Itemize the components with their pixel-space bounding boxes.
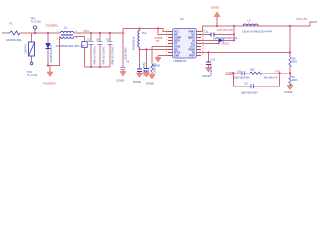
diode D4 bbox=[201, 37, 238, 43]
junction C17 left bbox=[232, 72, 234, 74]
svg-text:VREF: VREF bbox=[189, 55, 196, 57]
junction COMP node bbox=[289, 72, 291, 74]
junction TP1 bbox=[34, 32, 36, 34]
U2 left pin numbers bbox=[166, 30, 168, 56]
svg-text:L3: L3 bbox=[248, 19, 251, 23]
op-amp U2 bbox=[173, 17, 197, 63]
svg-text:1N4007W-R3-TP: 1N4007W-R3-TP bbox=[50, 44, 53, 63]
svg-text:DGND: DGND bbox=[285, 90, 293, 94]
svg-text:SYNC: SYNC bbox=[174, 46, 181, 48]
U2 right pin numbers bbox=[202, 30, 205, 56]
svg-text:DGND: DGND bbox=[146, 82, 154, 86]
svg-text:MOV: MOV bbox=[84, 29, 90, 33]
svg-text:100nF-450V: 100nF-450V bbox=[126, 47, 128, 60]
wire AC line input bbox=[2, 32, 57, 34]
svg-text:0603: 0603 bbox=[292, 61, 298, 64]
capacitor C5 bbox=[106, 32, 115, 67]
svg-text:RT: RT bbox=[156, 39, 160, 43]
svg-text:4: 4 bbox=[166, 39, 168, 41]
svg-text:75K-0603-7%: 75K-0603-7% bbox=[264, 78, 278, 80]
svg-text:L2: L2 bbox=[64, 26, 68, 30]
node RT label bbox=[156, 39, 160, 43]
wire T1A to IC pin bbox=[140, 48, 173, 50]
wire cap bank rail bbox=[85, 66, 111, 68]
svg-text:C13: C13 bbox=[211, 59, 216, 62]
svg-text:DGND: DGND bbox=[203, 74, 211, 78]
svg-text:5: 5 bbox=[166, 42, 168, 44]
capacitor C4 bbox=[96, 32, 106, 68]
resistor R16 bbox=[250, 69, 290, 75]
svg-text:13: 13 bbox=[202, 45, 205, 47]
junction T1A top bbox=[138, 27, 140, 29]
wire choke to bus bbox=[75, 32, 125, 34]
capacitor C9 bbox=[144, 48, 150, 77]
svg-text:DIS: DIS bbox=[174, 49, 178, 51]
svg-text:8: 8 bbox=[166, 51, 168, 53]
svg-text:220pF-0603-50V: 220pF-0603-50V bbox=[233, 78, 251, 80]
wire choke pin4 bbox=[75, 37, 85, 42]
wire neutral rail bbox=[48, 37, 60, 66]
capacitor C6 bbox=[121, 33, 130, 72]
junction T1A bottom bbox=[138, 48, 140, 50]
svg-text:C16: C16 bbox=[237, 71, 242, 74]
svg-text:FB: FB bbox=[192, 52, 195, 54]
svg-text:DGND: DGND bbox=[117, 79, 125, 83]
svg-text:12: 12 bbox=[202, 48, 205, 50]
node MOV label bbox=[84, 29, 90, 33]
svg-text:BO: BO bbox=[192, 34, 196, 36]
svg-text:PFCS: PFCS bbox=[174, 52, 181, 54]
wire FB line bbox=[201, 51, 290, 53]
node COMP label bbox=[155, 36, 163, 40]
svg-text:2: 2 bbox=[76, 31, 78, 33]
svg-text:OUT: OUT bbox=[190, 46, 195, 48]
svg-text:DGND: DGND bbox=[211, 6, 219, 10]
svg-text:1: 1 bbox=[57, 31, 59, 33]
wire bus to VCC pin bbox=[158, 29, 173, 35]
svg-text:DGND: DGND bbox=[222, 42, 230, 46]
capacitor C8 bbox=[133, 49, 146, 84]
diode D1 bbox=[46, 33, 53, 66]
inductor L3 bbox=[242, 19, 273, 34]
wire output bus bbox=[201, 22, 317, 31]
svg-text:VO2_8V: VO2_8V bbox=[296, 17, 307, 21]
wire divider vertical bbox=[289, 26, 291, 57]
svg-text:10: 10 bbox=[202, 54, 205, 56]
svg-text:U2: U2 bbox=[180, 17, 184, 21]
resistor R17 bbox=[289, 76, 298, 86]
svg-text:TL-Cx10: TL-Cx10 bbox=[31, 20, 42, 24]
ground DGND up flag bbox=[211, 6, 220, 28]
svg-text:ISEN: ISEN bbox=[174, 40, 180, 42]
wire HV bus riser bbox=[122, 29, 124, 34]
svg-text:INV: INV bbox=[174, 34, 178, 36]
resistor R15 bbox=[289, 57, 298, 76]
common mode choke L2 bbox=[56, 26, 88, 49]
capacitor C13 bbox=[203, 51, 216, 78]
ground DGND divider bbox=[285, 86, 294, 94]
svg-text:100nF-0603: 100nF-0603 bbox=[211, 63, 213, 76]
svg-text:800uH-EE16: 800uH-EE16 bbox=[134, 36, 136, 50]
IC right pin stubs bbox=[197, 31, 202, 55]
svg-text:N.C: N.C bbox=[191, 43, 195, 45]
svg-text:SS: SS bbox=[192, 40, 196, 42]
svg-text:DGND: DGND bbox=[152, 64, 160, 68]
svg-text:POWERN: POWERN bbox=[43, 82, 56, 86]
svg-text:10D471K: 10D471K bbox=[25, 44, 28, 54]
svg-text:22uF-50V-10V: 22uF-50V-10V bbox=[217, 29, 233, 32]
svg-text:TL-Cx10: TL-Cx10 bbox=[27, 73, 38, 77]
capacitor C3 bbox=[87, 32, 97, 68]
svg-text:26pF-0603-50V: 26pF-0603-50V bbox=[241, 91, 258, 94]
svg-text:DMAG: DMAG bbox=[188, 36, 195, 39]
junction bus VCC bbox=[157, 27, 159, 29]
svg-text:FMAX: FMAX bbox=[188, 30, 195, 33]
IC left pin stubs bbox=[168, 31, 173, 55]
svg-text:0603: 0603 bbox=[292, 79, 298, 82]
capacitor C12 bbox=[201, 29, 235, 36]
node VO2_8V label bbox=[296, 17, 307, 21]
svg-text:474K-X2-310VAC: 474K-X2-310VAC bbox=[112, 46, 115, 64]
fuse F1 bbox=[6, 22, 22, 43]
junction C17 right bbox=[278, 72, 280, 74]
svg-text:GND: GND bbox=[174, 55, 179, 57]
power symbol POWERN bbox=[43, 66, 56, 86]
svg-text:VCC: VCC bbox=[174, 31, 179, 33]
test point TP1 bbox=[31, 17, 42, 34]
ground DGND C6 bbox=[117, 72, 127, 83]
svg-text:R16: R16 bbox=[250, 69, 255, 72]
svg-text:474K-X2-310VAC: 474K-X2-310VAC bbox=[103, 46, 106, 64]
wire HV bus bbox=[123, 29, 173, 32]
junction D1 top bbox=[47, 32, 49, 34]
junction rail bbox=[47, 64, 49, 66]
svg-text:RV: RV bbox=[82, 45, 86, 47]
svg-text:F1: F1 bbox=[10, 22, 14, 26]
varistor RV2 bbox=[82, 42, 87, 68]
transformer winding T1A bbox=[134, 29, 147, 51]
svg-text:L6566B-TR: L6566B-TR bbox=[174, 60, 187, 63]
svg-text:3A/250V-6ML: 3A/250V-6ML bbox=[6, 38, 22, 42]
wire C12 riser bbox=[233, 25, 235, 41]
resistor R8 bbox=[146, 46, 173, 85]
node TP4 label bbox=[275, 69, 280, 73]
svg-text:3: 3 bbox=[57, 39, 59, 41]
svg-text:3: 3 bbox=[166, 36, 168, 38]
svg-text:COMP: COMP bbox=[174, 37, 181, 39]
svg-text:POWERL: POWERL bbox=[46, 24, 59, 28]
svg-text:474K-X2-310VAC: 474K-X2-310VAC bbox=[94, 46, 97, 64]
test point TP2 label bbox=[27, 70, 38, 77]
svg-text:DGND: DGND bbox=[133, 80, 141, 84]
svg-text:4: 4 bbox=[76, 38, 78, 40]
node POWERL label bbox=[46, 24, 59, 28]
junction FB bbox=[289, 51, 291, 53]
svg-text:C12: C12 bbox=[204, 31, 209, 34]
svg-text:16: 16 bbox=[202, 36, 205, 38]
capacitor C16 bbox=[234, 71, 251, 76]
capacitor C17 bbox=[233, 73, 280, 94]
svg-text:C17: C17 bbox=[244, 83, 249, 86]
svg-text:T1A: T1A bbox=[142, 31, 147, 35]
node COMP net label bbox=[226, 71, 234, 75]
ground DGND pin bbox=[152, 55, 173, 67]
junction output divider bbox=[289, 25, 291, 27]
varistor RV1 bbox=[25, 33, 35, 65]
node DGND flag right bbox=[201, 42, 229, 46]
svg-text:100uH-1A-SMD-CD54-474F: 100uH-1A-SMD-CD54-474F bbox=[242, 30, 273, 33]
svg-text:PGND: PGND bbox=[188, 49, 195, 51]
